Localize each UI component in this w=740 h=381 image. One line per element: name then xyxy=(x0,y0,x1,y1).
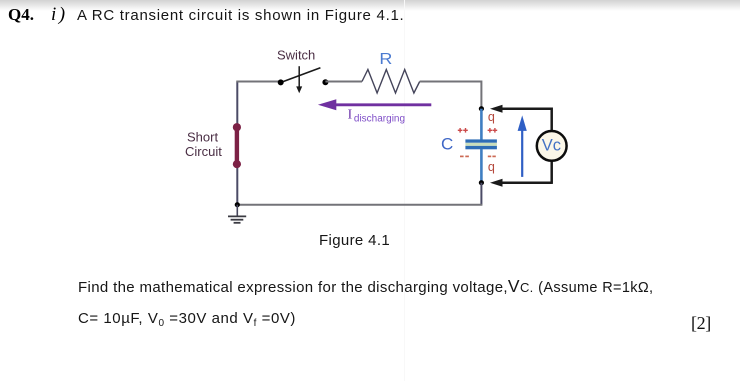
wire: top segment from left corner to switch left contact xyxy=(236,81,280,83)
marks xyxy=(691,313,711,334)
label q bottom xyxy=(488,160,495,174)
label R xyxy=(379,51,392,68)
figure caption xyxy=(319,232,390,249)
switch SW blade xyxy=(281,68,321,83)
label I discharging xyxy=(348,107,405,125)
discharge current arrow xyxy=(318,99,431,110)
question text line 1 xyxy=(78,276,653,297)
svg-text:Switch: Switch xyxy=(277,48,315,63)
header line xyxy=(8,5,34,25)
Vc meter probe arrow top xyxy=(490,105,552,113)
wire: blue capacitor top lead xyxy=(480,109,483,140)
question text line 2 xyxy=(78,310,296,329)
ground xyxy=(228,205,246,223)
label ++ right of cap xyxy=(488,128,498,133)
wire: bottom horizontal xyxy=(237,204,482,206)
svg-text:discharging: discharging xyxy=(354,113,405,124)
wire: blue capacitor bottom lead xyxy=(480,149,483,183)
svg-text:Short: Short xyxy=(187,129,218,144)
Vc meter probe arrow bottom xyxy=(490,179,552,187)
wire: right vertical below node to bottom corner xyxy=(480,183,482,205)
svg-text:Vc: Vc xyxy=(542,136,561,154)
svg-text:q: q xyxy=(488,160,495,174)
voltmeter Vc circle xyxy=(537,131,567,161)
short circuit bar xyxy=(233,123,241,168)
switch SW left contact dot xyxy=(278,79,284,85)
faint slide boundary line xyxy=(404,0,405,381)
svg-text:q: q xyxy=(488,110,495,124)
node: capacitor bottom junction dot xyxy=(479,180,484,185)
switch SW actuation arrow xyxy=(296,66,302,93)
wire: resistor to top-right corner and down to node xyxy=(420,82,482,109)
label q top xyxy=(488,110,495,124)
wire: Vc meter right vertical top xyxy=(550,108,553,132)
svg-text:R: R xyxy=(379,51,392,68)
label -- right of cap xyxy=(488,155,496,157)
resistor R zigzag xyxy=(362,70,420,94)
svg-text:I: I xyxy=(348,107,353,122)
label Short Circuit xyxy=(185,129,222,158)
wire: Vc meter right vertical bottom xyxy=(550,161,553,184)
label C xyxy=(441,135,453,154)
wire: left vertical xyxy=(236,82,238,205)
label Switch xyxy=(277,48,315,63)
capacitor voltage blue arrow xyxy=(518,115,527,176)
capacitor C plates xyxy=(465,139,497,149)
label ++ left of cap xyxy=(458,128,468,133)
node: capacitor top junction dot xyxy=(479,106,484,111)
svg-text:Circuit: Circuit xyxy=(185,144,222,159)
svg-text:C: C xyxy=(441,135,453,154)
label -- left of cap xyxy=(460,155,469,157)
node: ground junction dot xyxy=(235,202,240,207)
switch SW right contact dot xyxy=(322,79,328,85)
wire: switch right contact to resistor xyxy=(325,81,362,83)
